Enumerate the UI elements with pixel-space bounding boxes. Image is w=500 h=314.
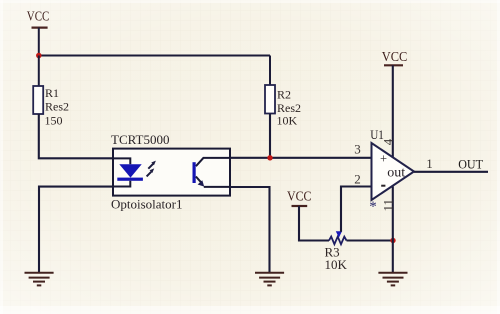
svg-text:Optoisolator1: Optoisolator1 <box>111 196 183 211</box>
wire VCC stem to bus <box>38 28 40 56</box>
LED D (blue) <box>117 164 143 181</box>
svg-text:R1: R1 <box>45 86 59 100</box>
svg-text:VCC: VCC <box>27 8 50 23</box>
svg-text:Res2: Res2 <box>45 100 69 114</box>
wire R2 bottom lead <box>269 114 271 158</box>
resistor R2 <box>265 85 301 128</box>
op-amp - input mark <box>381 185 385 187</box>
svg-text:11: 11 <box>380 199 395 212</box>
wire top bus <box>39 54 270 56</box>
svg-text:R2: R2 <box>277 88 291 102</box>
resistor R1 <box>33 86 69 128</box>
wire op-amp output <box>414 171 488 173</box>
svg-text:150: 150 <box>45 114 63 128</box>
wire R2 top lead <box>269 56 271 86</box>
phototransistor collector lead <box>196 158 230 166</box>
node junction R3/V- rail <box>390 238 395 243</box>
svg-text:4: 4 <box>380 138 395 145</box>
wire wiper to op-amp pin 2 <box>341 187 372 232</box>
wire R1 top lead <box>38 56 40 87</box>
ground (left) <box>25 273 54 286</box>
wire VCC stem to R3 <box>299 206 329 241</box>
svg-text:+: + <box>380 151 387 165</box>
svg-text:3: 3 <box>354 141 361 156</box>
svg-text:VCC: VCC <box>287 188 312 203</box>
svg-text:10K: 10K <box>277 114 298 128</box>
power port VCC (top left) <box>27 8 50 27</box>
op-amp U1 body <box>372 143 415 200</box>
wire V- stem pin 11 <box>392 187 394 273</box>
svg-text:1: 1 <box>426 156 433 171</box>
svg-text:2: 2 <box>354 171 361 186</box>
IR emission arrow (upper) <box>148 161 156 169</box>
wire emitter to middle ground <box>230 187 270 273</box>
LED cathode internal lead <box>113 181 130 187</box>
svg-text:OUT: OUT <box>458 157 483 172</box>
wire LED cathode to ground rail <box>39 187 113 273</box>
svg-text:out: out <box>387 165 405 180</box>
wire V+ stem pin 4 <box>392 65 394 158</box>
power port VCC (middle, for R3) <box>287 188 312 206</box>
phototransistor base bar <box>193 162 196 183</box>
node junction at VCC/R1 <box>36 53 42 59</box>
svg-text:10K: 10K <box>325 257 348 272</box>
wire collector to op-amp pin 3 <box>230 157 372 159</box>
R3 wiper arrow <box>336 231 342 237</box>
IR emission arrow (lower) <box>147 168 155 176</box>
svg-text:*: * <box>369 199 377 215</box>
ground (middle) <box>255 273 284 286</box>
ground (right) <box>378 273 407 286</box>
svg-text:TCRT5000: TCRT5000 <box>111 132 169 147</box>
wire R3 right to V- rail <box>347 239 394 241</box>
svg-text:VCC: VCC <box>382 49 408 64</box>
phototransistor emitter lead with arrow <box>196 177 230 187</box>
node junction R2/collector <box>267 155 272 160</box>
potentiometer R3 zigzag <box>325 237 348 273</box>
LED anode internal lead <box>113 158 130 164</box>
wire R1 bottom lead <box>39 114 113 158</box>
optoisolator body <box>113 149 230 196</box>
power port VCC (op-amp V+) <box>382 49 408 65</box>
